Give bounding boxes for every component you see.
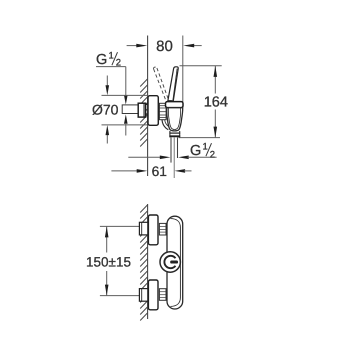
dimension O70 (102, 76, 149, 144)
body cap band (166, 102, 184, 108)
dimension 150+-15 (100, 226, 139, 295)
spout curve under adapter (162, 120, 168, 130)
cartridge cap circle (160, 252, 180, 272)
dashed lever (alternate position) (153, 67, 169, 102)
hose right edge (177, 137, 179, 158)
wall (147, 36, 149, 177)
svg-text:2: 2 (210, 149, 215, 160)
svg-text:80: 80 (156, 38, 173, 55)
wall hatching (140, 205, 147, 321)
adapter stack (159, 103, 166, 119)
dimension 164 (179, 66, 222, 138)
cone wedges at wall (146, 101, 149, 105)
upper nut (139, 222, 147, 235)
svg-text:G: G (96, 52, 107, 68)
lever end-on bar (170, 261, 178, 264)
svg-text:G: G (190, 143, 201, 159)
svg-text:1: 1 (203, 142, 208, 153)
wall hatching (140, 79, 147, 147)
body (167, 108, 183, 131)
lower nut (139, 289, 147, 302)
inner contour (171, 219, 181, 307)
lever hub ring (164, 256, 175, 268)
dimension 80 (127, 36, 202, 103)
lower flange (148, 280, 158, 310)
wall (147, 204, 149, 319)
svg-text:Ø70: Ø70 (92, 101, 119, 117)
pipe bottom arrow (124, 114, 128, 123)
outlet nut (169, 131, 171, 137)
capsule body (167, 216, 183, 309)
svg-text:150±15: 150±15 (86, 255, 131, 270)
escutcheon flange (side) (148, 96, 158, 126)
svg-text:1: 1 (109, 51, 114, 62)
G1/2 leader arrow to pipe top (124, 95, 128, 104)
G 1/2 bottom dimension (128, 156, 161, 158)
lower adapter (159, 289, 166, 301)
hose left edge (170, 137, 172, 162)
upper flange (148, 215, 158, 245)
hose centerline (173, 137, 175, 178)
dimension 61 (111, 170, 137, 172)
wall nut (138, 103, 145, 117)
svg-text:61: 61 (152, 164, 167, 179)
upper adapter (159, 223, 166, 235)
lever (solid) (168, 67, 178, 101)
supply pipe (122, 105, 138, 114)
svg-text:164: 164 (204, 95, 228, 111)
